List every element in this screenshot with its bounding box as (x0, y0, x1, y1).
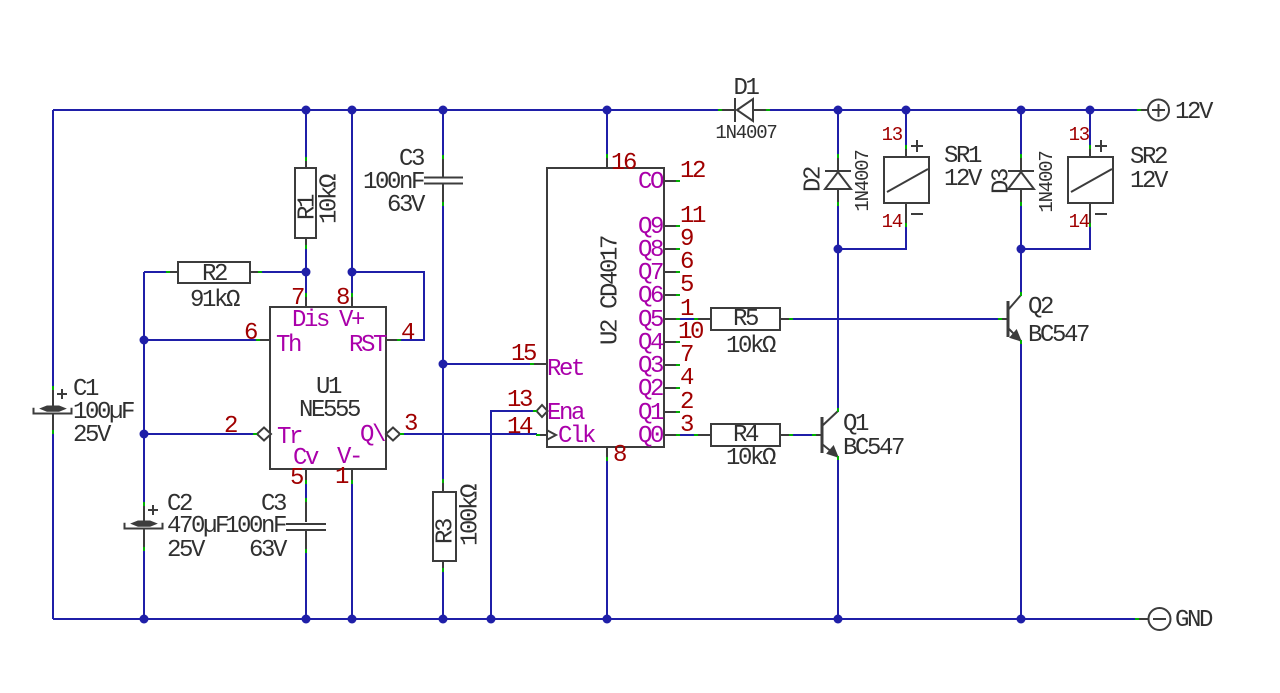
U2 pin number 6 (680, 249, 693, 276)
capacitor C1 value 100uF (73, 399, 134, 426)
diode D2 label (rotated) (800, 167, 827, 192)
svg-text:3: 3 (404, 411, 417, 438)
wire U1 pin1 to ground bus (351, 484, 353, 619)
svg-text:12V: 12V (1130, 168, 1169, 195)
U2 pin label Q6 (638, 283, 663, 310)
resistor R5 body (694, 308, 793, 330)
wire R1 top to bus (305, 110, 307, 158)
junction C3b/ground (302, 615, 311, 624)
junction Ena/ground (487, 615, 496, 624)
U2 pin label Q8 (638, 237, 663, 264)
svg-text:1: 1 (335, 464, 349, 491)
capacitor C1 label (73, 376, 99, 403)
wire Q5 to R5 (679, 318, 696, 320)
U2 pin number 4 (680, 365, 694, 392)
wire R2 left connection (144, 271, 167, 273)
U2 pin label Q1 (638, 400, 664, 427)
wire SR2 bottom to D3 node (1021, 225, 1090, 249)
wire top supply bus right segment (770, 109, 1139, 111)
svg-text:100nF: 100nF (225, 513, 286, 540)
relay SR1 reference (944, 143, 982, 170)
svg-text:R5: R5 (733, 306, 758, 333)
junction pin1/ground (348, 615, 357, 624)
U1 pin label Th (276, 332, 301, 359)
wire R2-left rail down to C2 (143, 272, 145, 505)
svg-text:1N4007: 1N4007 (1036, 151, 1058, 212)
capacitor C2 label (167, 491, 192, 518)
junction node Th (140, 336, 149, 345)
wire node to Q2 collector (1020, 249, 1022, 294)
resistor R3 label (rotated) (432, 519, 459, 544)
wire left rail lower (C1 to ground bus) (52, 432, 54, 619)
U1 pin label RST (349, 332, 387, 359)
U2 pin number 11 (680, 203, 706, 230)
power symbol +12V (1137, 100, 1169, 121)
U2 pin label Ena (547, 400, 585, 427)
junction pin8-U2/ground (603, 615, 612, 624)
wire Q-bar to Clk (401, 433, 537, 435)
relay SR1 value 12V (944, 166, 983, 193)
wire SR1 top to bus (905, 110, 907, 147)
wire Ena to ground bus (491, 411, 535, 619)
relay SR2 pin number 14 (1069, 211, 1090, 233)
resistor R4 value 10k (726, 445, 776, 472)
transistor Q2 value BC547 (1028, 322, 1089, 349)
resistor R1 label (rotated) (294, 194, 321, 220)
svg-text:BC547: BC547 (1028, 322, 1089, 349)
svg-text:Q2: Q2 (1028, 294, 1053, 321)
U1 pin number 2 (224, 413, 237, 440)
op-amp/timer U1 NE555 body and pins (253, 293, 404, 484)
relay SR1 pin number 14 (882, 211, 903, 233)
U2 pin number 10 (678, 319, 703, 346)
junction pin8-rail/bus (348, 106, 357, 115)
resistor R3 body (433, 479, 456, 572)
svg-text:NE555: NE555 (299, 397, 360, 424)
U2 pin number 12 (680, 158, 705, 185)
U1 pin number 5 (290, 465, 303, 492)
svg-text:R2: R2 (202, 261, 227, 288)
wire D3 bottom to node (1020, 204, 1022, 249)
wire RST loop (352, 272, 424, 340)
counter U2 CD4017 body and pins (530, 154, 680, 461)
relay SR2 value 12V (1130, 168, 1169, 195)
resistor R4 body (694, 424, 793, 446)
U1 pin label Dis (292, 307, 329, 334)
U2 pin number 16 (611, 150, 636, 177)
wire node Tr branch (144, 433, 255, 435)
wire C3b to ground bus (305, 551, 307, 619)
svg-text:Ret: Ret (547, 356, 583, 383)
U2 pin number 2 (680, 389, 693, 416)
svg-text:5: 5 (680, 272, 693, 299)
svg-text:8: 8 (613, 442, 626, 469)
U2 pin number 14 (507, 414, 533, 441)
junction SR1/bus (902, 106, 911, 115)
svg-text:10kΩ: 10kΩ (316, 174, 343, 224)
junction Q1-emitter/ground (834, 615, 843, 624)
U2 pin number 13 (507, 387, 532, 414)
wire D3 top to bus (1020, 110, 1022, 156)
capacitor C3 (bottom) value 100nF (225, 513, 286, 540)
wire U2 pin16 to bus (606, 110, 608, 156)
svg-text:Q0: Q0 (638, 423, 663, 450)
svg-text:Q6: Q6 (638, 283, 663, 310)
wire U2 pin8 to ground bus (606, 459, 608, 619)
svg-text:7: 7 (291, 285, 304, 312)
svg-text:D2: D2 (800, 167, 827, 192)
svg-text:D3: D3 (988, 169, 1015, 194)
svg-text:13: 13 (1069, 124, 1090, 146)
net label 12V (1175, 99, 1214, 126)
wire C2 to ground bus (143, 549, 145, 619)
U2 pin label Q4 (638, 330, 664, 357)
U2 pin number 15 (511, 341, 536, 368)
junction D1-D2/bus (834, 106, 843, 115)
transistor Q1 body (812, 408, 838, 460)
diode D2 body (825, 154, 851, 206)
svg-text:10kΩ: 10kΩ (726, 445, 776, 472)
svg-text:4: 4 (401, 320, 415, 347)
svg-text:CO: CO (638, 169, 664, 196)
diode D3 label (rotated) (988, 169, 1015, 194)
capacitor C3 (bottom) voltage 63V (249, 537, 288, 564)
svg-text:91kΩ: 91kΩ (190, 287, 240, 314)
U2 pin number 1 (680, 296, 694, 323)
junction C2/ground (140, 615, 149, 624)
wire D2 top to bus (837, 110, 839, 156)
junction Q2-emitter/ground (1017, 615, 1026, 624)
resistor R5 value 10k (726, 333, 776, 360)
svg-text:U2 CD4017: U2 CD4017 (597, 236, 624, 345)
svg-text:12V: 12V (1175, 99, 1214, 126)
svg-text:3: 3 (680, 412, 693, 439)
U2 pin label Q0 (638, 423, 663, 450)
U2 pin label Q9 (638, 214, 663, 241)
junction node R1/R2/pin7 (302, 268, 311, 277)
resistor R2 label (202, 261, 227, 288)
ground symbol GND (1135, 608, 1171, 630)
U2 pin number 7 (680, 342, 693, 369)
wire C3 down to R3 (442, 204, 444, 481)
wire R2 right to node (261, 271, 306, 273)
U1 pin label V+ (339, 307, 365, 334)
relay SR2 reference (1130, 144, 1167, 171)
U1 pin number 4 (401, 320, 415, 347)
svg-text:4: 4 (680, 365, 694, 392)
wire Q0 to R4 (679, 434, 696, 436)
svg-text:Th: Th (276, 332, 301, 359)
svg-text:BC547: BC547 (843, 435, 904, 462)
diode D3 value 1N4007 (rotated) (1036, 151, 1058, 212)
U2 pin number 3 (680, 412, 693, 439)
svg-text:Q\: Q\ (360, 422, 386, 449)
svg-text:470µF: 470µF (167, 513, 228, 540)
transistor Q2 reference (1028, 294, 1053, 321)
capacitor C2 body (125, 502, 163, 551)
wire R4 to Q1 base (792, 434, 818, 436)
wire U1 pin5 to C3b (305, 484, 307, 501)
wire C3 top to bus (442, 110, 444, 157)
capacitor C3 (top) voltage 63V (387, 192, 426, 219)
svg-text:5: 5 (290, 465, 303, 492)
svg-text:SR2: SR2 (1130, 144, 1167, 171)
wire SR2 top to bus (1089, 110, 1091, 147)
wire R1 bottom to pin7 (305, 248, 307, 293)
relay SR1 pin number 13 (882, 124, 903, 146)
diode D1 body (718, 98, 770, 122)
U1 pin label Tr (277, 424, 302, 451)
svg-text:12V: 12V (944, 166, 983, 193)
svg-text:Q1: Q1 (843, 411, 869, 438)
U2 pin label CO (638, 169, 664, 196)
resistor R3 value 100k (rotated) (457, 484, 484, 546)
wire Q1 emitter to ground bus (837, 457, 839, 619)
svg-text:13: 13 (507, 387, 532, 414)
transistor Q1 value BC547 (843, 435, 904, 462)
wire Ret branch (443, 363, 531, 365)
U2 reference/value U2 CD4017 (rotated) (597, 236, 624, 345)
svg-text:13: 13 (882, 124, 903, 146)
svg-text:12: 12 (680, 158, 705, 185)
capacitor C3 (top) value 100nF (363, 169, 424, 196)
wire top supply bus left segment (53, 109, 719, 111)
svg-text:14: 14 (507, 414, 533, 441)
U2 pin label Q5 (638, 307, 663, 334)
capacitor C1 voltage 25V (73, 422, 112, 449)
U2 pin number 5 (680, 272, 693, 299)
svg-text:25V: 25V (73, 422, 112, 449)
capacitor C3 (bottom) label (261, 491, 286, 518)
wire pin8 rail to bus (351, 110, 353, 293)
U2 pin number 9 (680, 226, 693, 253)
resistor R4 label (733, 422, 759, 449)
svg-text:25V: 25V (167, 537, 206, 564)
diode D2 value 1N4007 (rotated) (852, 150, 874, 211)
svg-text:8: 8 (336, 285, 349, 312)
svg-text:Clk: Clk (558, 423, 596, 450)
U2 pin label Clk (558, 423, 596, 450)
relay SR1 body (884, 140, 929, 227)
U1 pin label Q-bar (360, 422, 386, 449)
U1 pin label V- (337, 444, 361, 471)
svg-text:16: 16 (611, 150, 636, 177)
junction node D3/SR2/Q2 (1017, 245, 1026, 254)
resistor R5 label (733, 306, 758, 333)
junction SR2/bus (1086, 106, 1095, 115)
capacitor C3 (top) label (399, 146, 424, 173)
resistor R2 value 91k (190, 287, 240, 314)
capacitor C3 (bottom) body (286, 498, 326, 553)
svg-text:6: 6 (244, 320, 257, 347)
wire bottom ground bus (53, 618, 1137, 620)
capacitor C1 body (34, 386, 72, 434)
junction node Ret (439, 360, 448, 369)
U1 pin number 6 (244, 320, 257, 347)
svg-text:10kΩ: 10kΩ (726, 333, 776, 360)
svg-text:100kΩ: 100kΩ (457, 484, 484, 546)
svg-text:2: 2 (224, 413, 237, 440)
junction node pin8/RST (348, 268, 357, 277)
U2 pin label Ret (547, 356, 583, 383)
svg-text:RST: RST (349, 332, 387, 359)
svg-text:GND: GND (1175, 607, 1213, 634)
junction D3/bus (1017, 106, 1026, 115)
U2 pin label Q2 (638, 376, 663, 403)
resistor R1 value 10k (rotated) (316, 174, 343, 224)
U1 pin number 3 (404, 411, 417, 438)
capacitor C2 voltage 25V (167, 537, 206, 564)
svg-text:R3: R3 (432, 519, 459, 544)
relay SR2 body (1068, 140, 1113, 227)
U1 pin label Cv (293, 445, 319, 472)
junction pin16/bus (603, 106, 612, 115)
net label GND (1175, 607, 1213, 634)
wire R3 bottom to ground bus (442, 570, 444, 619)
transistor Q2 body (998, 292, 1021, 344)
wire left rail upper (12V rail down to C1) (52, 110, 54, 388)
junction node Tr (140, 430, 149, 439)
svg-text:14: 14 (882, 211, 903, 233)
wire node Th branch (144, 339, 256, 341)
wire SR1 bottom to D2 node (838, 225, 906, 249)
resistor R2 body (166, 262, 262, 283)
capacitor C3 (top) body (424, 155, 463, 206)
transistor Q1 reference (843, 411, 869, 438)
U2 pin label Q3 (638, 353, 663, 380)
U1 reference U1 (316, 374, 342, 401)
svg-text:63V: 63V (387, 192, 426, 219)
U2 pin number 8 (613, 442, 626, 469)
junction R3/ground (439, 615, 448, 624)
wire Q2 emitter to ground bus (1020, 342, 1022, 619)
svg-text:15: 15 (511, 341, 536, 368)
svg-text:14: 14 (1069, 211, 1090, 233)
svg-text:1N4007: 1N4007 (852, 150, 874, 211)
relay SR2 pin number 13 (1069, 124, 1090, 146)
junction node D2/SR1/Q1 (834, 245, 843, 254)
capacitor C2 value 470uF (167, 513, 228, 540)
svg-text:63V: 63V (249, 537, 288, 564)
svg-text:D1: D1 (733, 75, 759, 102)
wire R5 to Q2 base (792, 318, 999, 320)
diode D3 body (1008, 154, 1034, 206)
diode D1 label (733, 75, 759, 102)
svg-text:1N4007: 1N4007 (715, 122, 776, 144)
svg-text:Q2: Q2 (638, 376, 663, 403)
U1 value NE555 (299, 397, 360, 424)
U1 pin number 7 (291, 285, 304, 312)
U2 pin label Q7 (638, 260, 663, 287)
U1 pin number 8 (336, 285, 349, 312)
U1 pin number 1 (335, 464, 349, 491)
junction R1/bus (302, 106, 311, 115)
wire D2 bottom to node (837, 204, 839, 249)
resistor R1 body (295, 157, 316, 249)
diode D1 value 1N4007 (715, 122, 776, 144)
junction C3/bus (439, 106, 448, 115)
wire node to Q1 collector (837, 249, 839, 409)
